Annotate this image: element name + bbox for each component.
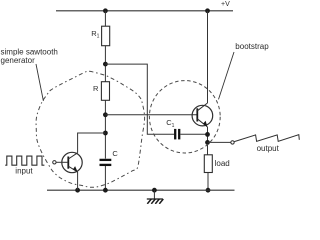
transistor Q2 bbox=[192, 103, 213, 127]
wire: Q2 emitter down to load bbox=[207, 127, 209, 155]
wire: load bottom to ground rail bbox=[207, 173, 209, 191]
svg-text:R: R bbox=[93, 84, 99, 93]
svg-text:C1: C1 bbox=[166, 118, 174, 129]
wire: R bottom to capacitor C bbox=[104, 100, 106, 158]
node: ground symbol tap bbox=[152, 188, 157, 193]
wire: Q2 base bbox=[105, 114, 197, 116]
wire: C1 to Q2 emitter node bbox=[180, 133, 207, 135]
svg-text:generator: generator bbox=[1, 56, 36, 65]
node: Q1 emitter / ground rail bbox=[75, 188, 80, 193]
ground bbox=[147, 190, 164, 204]
svg-text:R1: R1 bbox=[91, 29, 99, 40]
svg-text:+V: +V bbox=[221, 1, 230, 8]
output terminal (open circle) bbox=[231, 141, 234, 144]
wire: +V supply rail bbox=[56, 10, 233, 12]
sawtooth output waveform bbox=[234, 135, 299, 142]
wire: ground rail bbox=[47, 189, 235, 191]
svg-text:bootstrap: bootstrap bbox=[235, 42, 269, 51]
wire: R1 top stub bbox=[104, 11, 106, 26]
svg-text:load: load bbox=[215, 159, 230, 168]
wire: output tap to terminal bbox=[208, 141, 231, 143]
svg-text:output: output bbox=[257, 144, 280, 153]
input terminal (open circle) bbox=[53, 161, 56, 164]
node: load / ground rail bbox=[206, 188, 211, 193]
wire: Q1 collector to node bbox=[78, 133, 106, 153]
wire: Q2 collector to +V rail bbox=[207, 11, 209, 103]
node A: R1/R junction bbox=[103, 62, 108, 67]
transistor Q1 bbox=[62, 152, 82, 172]
svg-text:C: C bbox=[112, 149, 118, 158]
dashed boundary: simple sawtooth generator bbox=[36, 71, 145, 187]
svg-text:input: input bbox=[15, 167, 33, 176]
dashed boundary: bootstrap bbox=[149, 81, 220, 153]
input square wave symbol bbox=[5, 156, 44, 165]
node: rail / R1 junction bbox=[103, 8, 108, 13]
leader line: bootstrap label bbox=[219, 52, 235, 99]
node: rail / Q2 collector junction bbox=[205, 8, 210, 13]
node: output tap bbox=[205, 140, 210, 145]
resistor R bbox=[101, 82, 109, 101]
leader line: sawtooth generator label bbox=[36, 64, 43, 101]
wire: C bottom to ground rail bbox=[104, 166, 106, 190]
node: Q1 collector junction bbox=[103, 131, 108, 136]
node: Q2 base tap bbox=[103, 112, 108, 117]
node: C / ground rail bbox=[103, 188, 108, 193]
wire: R1 bottom to node A bbox=[104, 46, 106, 82]
wire: Q1 emitter to ground rail bbox=[77, 172, 79, 190]
node: emitter / C1 junction bbox=[205, 132, 210, 137]
capacitor C bbox=[100, 160, 112, 165]
capacitor C1 bbox=[175, 129, 179, 140]
wire: bootstrap feedback from node A to C1 bbox=[105, 64, 174, 134]
wire: input to Q1 base bbox=[56, 161, 68, 163]
resistor load bbox=[204, 155, 212, 173]
resistor R1 bbox=[102, 26, 110, 46]
